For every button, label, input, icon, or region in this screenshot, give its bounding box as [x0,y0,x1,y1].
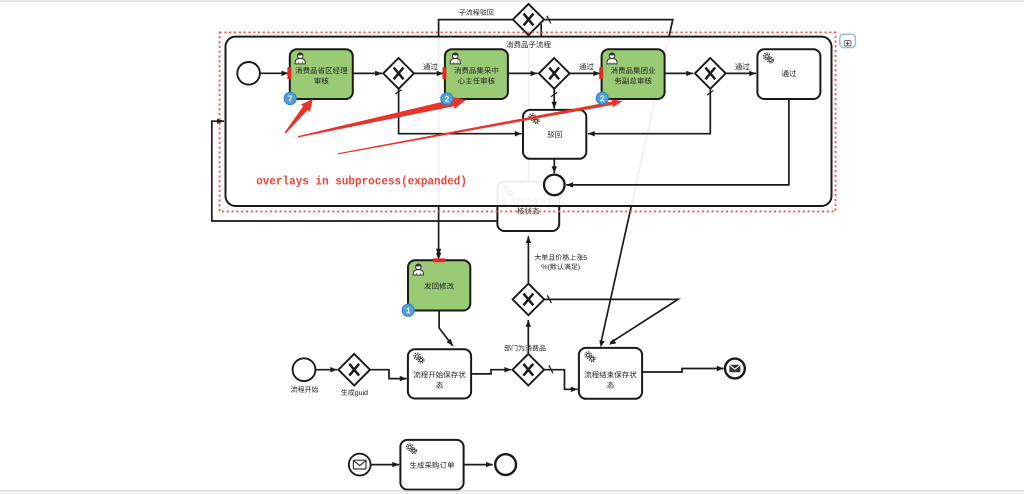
edge label 通过 after gateway3 [735,63,749,70]
wire 发回修改 to task 流程开始保存状态 [439,311,453,346]
edge label 通过 after gateway2 [579,63,593,70]
wire gateway3 down to 驳回 right [588,89,710,134]
wire gateway1 down to 驳回 left [399,89,522,134]
task 消费品集团业务副总审核 (user task, green) [602,49,665,99]
label line2 of hidden task [517,208,539,215]
start event (subprocess) [237,62,260,85]
default-flow slash below gateway2 [551,92,557,96]
wire gateway2 to task3 通过 [570,72,601,74]
task 生成采购订单 label [410,462,454,469]
wire gateway-reject to task 发回修改 (passes behind subprocess) [439,20,513,256]
start event 流程开始 [293,358,316,381]
wire gateway bottom to hidden task 发回修改保存审核状态 (behind subprocess) [528,31,530,181]
overlay badge 2 on task2 [441,93,453,105]
overlay badge 2 on task3 [596,92,608,104]
task 消费品集采中心主任审核 (user task, green) [445,49,508,99]
wire task2 to gateway2 [508,72,537,74]
gateway after task3 [695,58,726,89]
conditional slash right of 大单且价格上涨 [547,295,551,303]
wire task1 to gateway1 [353,72,382,74]
red incoming marker on task2 left edge [443,67,447,79]
top border line [0,0,1024,1]
selection outline (red dotted) around subprocess [220,32,836,211]
gateway 子流程驳回 (top) [513,4,544,35]
gateway after task2 [539,58,570,89]
label 大单且价格上涨5 line2 [542,263,580,270]
default-flow slash below gateway3 [707,91,713,95]
wire start to gateway 生成guid [315,369,337,371]
task1 label line2 [314,77,328,84]
task 驳回 label [548,131,562,138]
task 生成采购订单 (service task) [400,440,463,490]
conditional slash right of top gateway [547,16,551,24]
label 生成guid [341,389,367,396]
wire 部门为消费品 to task 流程结束保存状态 [544,370,578,390]
wire 部门为消费品 up to gateway 大单且价格上涨 [527,320,529,354]
label line1 of hidden task [502,198,554,205]
task2 label line1 [454,67,498,74]
wire task3 to gateway3 [665,72,694,74]
wire gateway1 to task2 通过 [414,72,444,74]
label 流程开始 [291,386,319,393]
wire gateway-pass diagonal to task 流程结束保存状态 (passes behind subprocess) [544,20,673,344]
default-flow slash below gateway1 [395,90,401,94]
task1 label line1 [295,67,347,74]
wire message start to task 生成采购订单 [371,464,400,466]
gateway after task1 [383,58,414,89]
wire gateway2 down to 驳回 top [553,89,555,109]
task 流程开始保存状态 line2 [436,382,443,389]
wire gateway3 to task 通过 [726,72,756,74]
task 流程开始保存状态 (service task) [408,349,471,398]
gateway 部门为消费品 [513,354,545,386]
red overlay arrow 3 pointing at task3 [338,99,623,154]
task3 label line1 [611,67,655,74]
wire hidden task to subprocess left edge (loopback) [212,121,498,221]
task 流程结束保存状态 line1 [585,371,637,378]
label 子流程驳回 [459,9,493,16]
red overlay arrow 1 pointing at task1 [285,99,313,134]
message start event [349,454,371,476]
wire subprocess top to top gateway (vertical stub) [540,24,542,37]
collapse/expand button top-right [840,34,856,47]
task 流程结束保存状态 (service task) [579,348,642,399]
conditional slash right of 部门为消费品 [549,365,553,373]
wire 大单且价格上涨 right-diagonal to 流程结束保存状态 [544,299,678,342]
red incoming marker on task3 left edge [599,67,603,79]
task 流程结束保存状态 line2 [607,382,614,389]
end event (bottom row) [495,454,516,475]
overlay badge 1 on 发回修改 [402,304,414,316]
label 部门为消费品 [504,345,545,352]
wire 大单且价格上涨 up to hidden task [527,236,529,283]
wire 驳回 down to end event [553,159,555,173]
wire start to task 消费品省区经理审核 [260,72,288,74]
task2 label line2 [458,77,495,84]
red incoming marker on task1 left edge [287,67,291,79]
wire 流程结束保存状态 to message end event [642,369,724,373]
task 流程开始保存状态 line1 [414,371,466,378]
bottom border line [0,490,1024,491]
red overlay arrow 2 pointing at task2 [298,97,466,138]
task 发回修改 (user task, green) [408,260,470,310]
wire 流程开始保存状态 to gateway 部门为消费品 [471,370,511,374]
gateway 大单且价格上涨5% [513,284,545,316]
task 通过 (service task) [757,49,820,99]
red incoming marker on task 发回修改 top edge [433,258,446,262]
edge label 通过 after gateway1 [423,63,437,70]
end event (subprocess) [544,175,565,196]
task 驳回 (service task) [523,110,586,159]
task 通过 label [782,70,796,77]
subprocess 消费品子流程 (expanded) [226,37,832,206]
wire task 通过 down-left to end event [566,99,789,185]
label 大单且价格上涨5 line1 [535,254,587,261]
task 消费品省区经理审核 (user task, green) [290,49,353,99]
overlay badge 7 on task1 [284,92,296,104]
task 发回修改 label [424,283,454,290]
task 发回修改保存审核状态 (partially hidden behind subprocess) [497,182,559,231]
wire 生成guid to task 流程开始保存状态 [370,370,407,379]
wire 生成采购订单 to end event [464,464,493,466]
task3 label line2 [615,77,652,84]
subprocess name label [506,41,550,48]
message end event [725,359,745,379]
gateway 生成guid [338,354,370,386]
svg-text:overlays in subprocess(expande: overlays in subprocess(expanded) [256,176,467,189]
